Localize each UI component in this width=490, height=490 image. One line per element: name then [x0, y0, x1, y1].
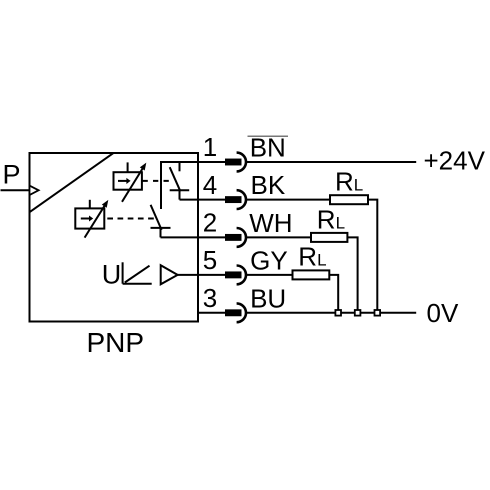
U characteristic vertical axis	[122, 262, 124, 283]
junction J1	[375, 310, 381, 316]
switch S1 fixed contact	[179, 162, 181, 171]
thin rule above BN	[248, 135, 289, 137]
dashed link B2 to S2	[107, 218, 154, 220]
wire pin1 outer	[245, 161, 416, 163]
U characteristic horizontal axis	[123, 283, 152, 285]
wire pin5 GY outer	[245, 275, 338, 313]
wire pin3 BU inner	[198, 312, 241, 314]
threshold comparator B1 setpoint arrow	[118, 180, 127, 182]
amplifier triangle U1	[161, 265, 178, 284]
internal +V rail wire (pin 1 / BN)	[161, 162, 241, 209]
threshold comparator B2 setpoint arrow	[81, 218, 90, 220]
svg-text:U: U	[102, 260, 122, 290]
svg-text:3: 3	[203, 283, 217, 313]
svg-text:1: 1	[203, 132, 217, 162]
threshold comparator B2 adjust arrow	[85, 206, 105, 238]
U characteristic ramp	[125, 266, 150, 283]
junction J3	[335, 310, 341, 316]
threshold comparator B1 adjust arrow	[122, 169, 143, 202]
connector pin4 plug bar	[226, 197, 241, 202]
wire pin4 BK outer	[245, 200, 377, 313]
resistor RL3 body	[293, 270, 330, 279]
svg-text:BU: BU	[250, 283, 286, 313]
switch S1 output bar	[170, 189, 190, 191]
wire pin4 BK inner	[180, 199, 241, 201]
switch S1 lever	[170, 167, 181, 191]
resistor RL1 body	[330, 195, 368, 204]
connector pin2 socket arc	[237, 228, 246, 247]
connector pin1 plug bar	[226, 160, 241, 165]
P input wire	[1, 189, 30, 191]
resistor RL2 body	[311, 233, 347, 242]
svg-text:P: P	[3, 160, 21, 190]
wire pin2 WH inner	[161, 236, 241, 238]
threshold comparator B1 stub	[127, 162, 129, 172]
svg-text:0V: 0V	[427, 298, 459, 328]
svg-text:4: 4	[203, 170, 217, 200]
sensor body box	[30, 153, 199, 322]
P input arrowhead	[30, 186, 39, 195]
svg-text:2: 2	[203, 208, 217, 238]
threshold comparator B2 stub	[89, 200, 91, 209]
svg-text:5: 5	[203, 245, 217, 275]
connector pin3 socket arc	[237, 303, 246, 322]
transducer separator diagonal	[30, 153, 114, 212]
connector pin4 socket arc	[237, 190, 246, 209]
svg-text:BK: BK	[251, 170, 286, 200]
wire pin5 GY inner	[178, 274, 241, 276]
connector pin5 plug bar	[226, 272, 241, 277]
svg-text:GY: GY	[250, 246, 288, 276]
wire pin3 BU / 0V rail outer	[245, 312, 416, 314]
threshold comparator B2 body	[75, 208, 104, 228]
switch S2 output bar	[151, 227, 171, 229]
connector pin1 socket arc	[237, 153, 246, 172]
dashed link B1 to S1	[143, 180, 170, 182]
connector pin5 socket arc	[237, 266, 246, 285]
switch S2 lever	[151, 205, 162, 230]
connector pin2 plug bar	[226, 235, 241, 240]
svg-text:BN: BN	[250, 133, 286, 163]
switch S2 output drop	[160, 228, 162, 238]
svg-text:PNP: PNP	[87, 327, 145, 358]
switch S1 output drop	[179, 190, 181, 199]
wire pin2 WH outer	[245, 237, 357, 312]
svg-text:+24V: +24V	[424, 146, 486, 176]
threshold comparator B1 body	[114, 172, 142, 190]
connector pin3 plug bar	[226, 310, 241, 315]
junction J2	[355, 310, 361, 316]
svg-text:WH: WH	[249, 208, 292, 238]
